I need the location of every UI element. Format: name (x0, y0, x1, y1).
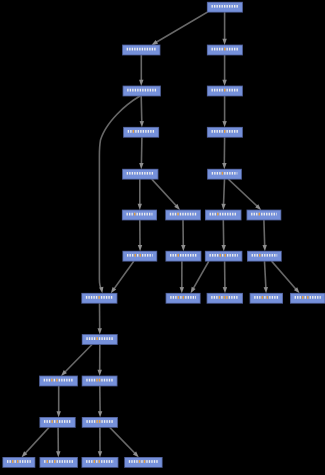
wire edge P11R-B3 (98, 427, 102, 457)
node N6d (247, 210, 281, 220)
wire edge N6d-N7d (263, 220, 267, 251)
node P11R (82, 417, 117, 427)
node L5 (123, 169, 159, 179)
wire edge R5-N6c (221, 179, 225, 210)
wire edge N7d-H (264, 261, 268, 293)
node N7c (205, 251, 242, 261)
wire edge R3-R4 (222, 96, 226, 127)
node R2 (207, 45, 242, 55)
node P9 (82, 335, 117, 345)
wire edge E-P9 (98, 303, 102, 334)
wire edge L3-L4 (140, 96, 144, 127)
node I (290, 293, 325, 303)
wire edge L4-L5 (139, 137, 143, 169)
wire edge N7c-G (223, 261, 227, 293)
wire edge P10R-P11R (98, 386, 102, 417)
node N7a (123, 251, 157, 261)
wire edge L5-N6b (152, 179, 180, 210)
wire edge N6b-N7b (181, 220, 185, 251)
wire edge P11R-B4 (110, 427, 139, 457)
wire edge P10L-P11L (57, 386, 61, 417)
wire edge R2-R3 (222, 55, 226, 86)
wire edge L5-N6a (138, 179, 142, 210)
wire edge P9-P10L (61, 345, 92, 377)
node E (82, 293, 117, 303)
wire edge N6a-N7a (138, 220, 142, 251)
wire edge root-R2 (222, 12, 226, 45)
wire edge root-L2 (152, 11, 210, 45)
node H (250, 293, 283, 303)
node P10L (40, 376, 78, 386)
node N6a (122, 210, 156, 220)
node P11L (40, 417, 76, 427)
node N7b (166, 251, 201, 261)
wire edge L3-E (long curve) (99, 96, 140, 293)
node L4 (124, 127, 159, 137)
wire edge P11L-B1 (22, 427, 50, 457)
wire edge N6c-N7c (222, 220, 226, 251)
node L3 (123, 86, 161, 96)
wire edge P9-P10R (98, 345, 102, 377)
node R3 (207, 86, 242, 96)
wire edge N7a-E (111, 261, 134, 293)
node R4 (207, 127, 242, 137)
node N6c (205, 210, 241, 220)
node L2 (123, 45, 161, 55)
node B4 (125, 457, 163, 467)
wire edge R4-R5 (222, 137, 226, 169)
node G (207, 293, 243, 303)
node P10R (82, 376, 117, 386)
node root (207, 2, 242, 12)
node R5 (208, 169, 242, 179)
node B1 (3, 457, 35, 467)
node B3 (82, 457, 118, 467)
node B2 (40, 457, 78, 467)
wire edge R5-N6d (228, 179, 261, 210)
wire edge N7d-I (272, 261, 300, 293)
wire edge N7c-F (191, 261, 209, 293)
wire edge N7b-F (180, 261, 184, 293)
node F (166, 293, 200, 303)
wire edge L2-L3 (139, 55, 143, 86)
wire edge P11L-B2 (56, 427, 60, 457)
node N6b (166, 210, 201, 220)
node N7d (247, 251, 281, 261)
